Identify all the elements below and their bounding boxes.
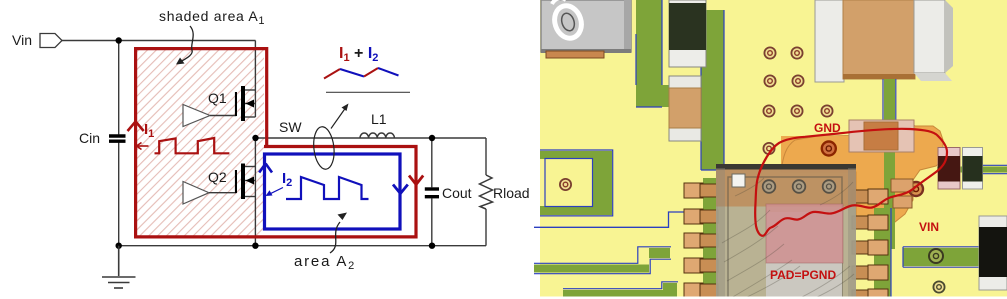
svg-text:I1 + I2: I1 + I2	[339, 45, 378, 64]
via in ring	[560, 179, 571, 190]
inductor L1	[360, 133, 394, 138]
trace green vertical (top, left of C black chip)	[636, 0, 662, 100]
wire Vin top rail	[61, 40, 256, 42]
Vin port tag	[40, 34, 62, 48]
trace green band C bottom-left	[563, 283, 677, 298]
QFN center pad (pink PGND pad)	[766, 204, 843, 263]
trace outline blue (vertical B)	[701, 10, 724, 170]
op-amp driver U1 (Q1 gate driver)	[183, 105, 210, 127]
ground	[102, 246, 136, 288]
capacitor Cin	[109, 136, 126, 141]
svg-text:shaded area A1: shaded area A1	[159, 8, 265, 27]
capacitor GND (on pour, horizontal)	[849, 120, 914, 152]
annotation leader for area A2	[330, 213, 347, 254]
copper pour strip above QFN	[781, 136, 856, 172]
capacitor component tan (middle)	[669, 76, 701, 141]
divider line under ripple waveform	[326, 91, 410, 93]
wire Cout bottom stem	[431, 198, 433, 245]
trace thin blue line mid-left	[534, 212, 684, 227]
current arrow I2 (up arrow on blue left edge)	[259, 164, 272, 173]
wire Q2 source to ground rail	[254, 197, 256, 246]
wire bottom rail	[119, 245, 486, 247]
trace green strip behind left pins	[703, 178, 718, 299]
svg-text:area A2: area A2	[294, 253, 356, 272]
trace green strip behind right pins	[874, 208, 891, 299]
wire SW node to L1 and Cout	[256, 137, 433, 139]
wire left rail upper (Vin junction to Cin)	[118, 41, 120, 135]
QFN pads right column	[852, 190, 870, 299]
trace green ring (bottom-left)	[540, 151, 612, 215]
svg-text:L1: L1	[371, 111, 387, 127]
node ground junction	[116, 243, 122, 249]
wire Cout top stem	[431, 138, 433, 187]
trace band C blue outline	[563, 282, 678, 289]
via large on pour (row4)	[822, 142, 836, 156]
svg-text:Cout: Cout	[442, 185, 472, 201]
waveform I1+I2 zigzag	[324, 68, 399, 79]
op-amp driver U2 (Q2 gate driver)	[183, 182, 209, 205]
node Cout top junction	[429, 135, 435, 141]
trace green elbow horizontal	[636, 85, 724, 107]
wire Cout to Rload top	[432, 137, 486, 139]
QFN body (translucent)	[716, 168, 856, 299]
shaded area A1 red border (loop)	[136, 49, 416, 237]
current arrow blue down (A2 right edge)	[393, 185, 408, 194]
annotation leader for shaded area A1	[176, 26, 193, 65]
wire Q1 drain vertical	[254, 41, 256, 91]
pads small on pour right	[891, 179, 913, 192]
trace green band bottom right	[903, 248, 1007, 266]
node Cout bottom junction	[429, 243, 435, 249]
svg-text:VIN: VIN	[919, 220, 939, 234]
trace ring inner blue outline	[545, 159, 593, 207]
QFN copper band under body top	[716, 170, 856, 207]
svg-text:Rload: Rload	[493, 185, 530, 201]
waveform I1 (dark red square pulses)	[155, 138, 230, 153]
trace outline blue (vertical A)	[636, 0, 662, 107]
svg-text:Cin: Cin	[79, 130, 100, 146]
QFN center gray column	[766, 212, 842, 299]
trace green band B lower-left	[534, 248, 670, 273]
QFN side strips	[716, 168, 725, 299]
QFN top dark edge	[716, 164, 856, 170]
svg-text:GND: GND	[814, 121, 841, 135]
svg-text:SW: SW	[279, 119, 302, 135]
chip component bottom-right black	[979, 216, 1007, 290]
node SW junction	[252, 135, 258, 141]
PCB solder mask background	[540, 0, 1007, 297]
annotation leader I2 arrow	[266, 188, 284, 197]
QFN pin-1 marker	[732, 174, 745, 187]
waveform I2 (blue ramps)	[286, 177, 369, 199]
inductor component top-left (gray)	[541, 0, 631, 53]
capacitor big (top right, tan with white ends)	[815, 0, 953, 82]
QFN vias inside top	[763, 180, 836, 193]
trace ring outer blue outline	[540, 150, 613, 216]
wire left rail lower (Cin to ground rail)	[118, 143, 120, 246]
svg-text:Q2: Q2	[208, 169, 227, 185]
annotation arrow SW to ripple	[331, 104, 349, 129]
copper pour GND/VIN region (orange)	[781, 122, 943, 226]
chip pair right: black chip	[963, 148, 983, 190]
shaded area A1 hatched fill	[137, 50, 264, 236]
via field rows (yellow area)	[763, 47, 832, 154]
QFN inner frame	[728, 177, 842, 299]
lead blue outlines	[883, 79, 896, 124]
via bottom-right on yellow	[933, 281, 944, 292]
svg-text:Q1: Q1	[208, 90, 227, 106]
via on bottom-right green band	[929, 249, 943, 263]
node Vin junction	[116, 37, 122, 43]
capacitor Cout	[425, 189, 439, 197]
trace band B blue outline	[534, 247, 671, 274]
wire Q1 gate lead	[210, 92, 236, 116]
annotation red loop (GND/VIN current path)	[755, 129, 947, 236]
trace green horizontal to right edge (under chips)	[937, 167, 1007, 173]
chip component R black (top middle)	[669, 0, 706, 67]
pad copper strip under inductor	[546, 51, 604, 58]
QFN pads left column	[684, 183, 703, 298]
current arrow red down (red loop right edge)	[409, 176, 423, 185]
transistor Q1	[236, 86, 255, 121]
chip pair right: dark red chip	[938, 148, 960, 190]
wire Rload bottom vertical	[485, 209, 487, 246]
resistor Rload	[480, 175, 493, 209]
wire Rload top vertical	[485, 138, 487, 175]
svg-text:PAD=PGND: PAD=PGND	[770, 268, 836, 282]
transistor Q2	[236, 164, 255, 200]
area A2 blue rectangle	[265, 154, 401, 229]
node SW highlight ellipse	[312, 126, 336, 170]
wire Q2 gate lead	[209, 170, 236, 193]
via on pour right (near VIN)	[909, 182, 923, 196]
current arrow I1 (up arrow on left red edge)	[128, 122, 144, 132]
svg-text:Vin: Vin	[12, 32, 32, 48]
trace green vertical B (behind chip column)	[701, 10, 724, 170]
QFN reflection streaks	[722, 178, 854, 298]
bottom white strip	[534, 297, 1007, 299]
wire Q2 drain vertical	[254, 138, 256, 167]
svg-text:I2: I2	[282, 170, 292, 189]
small red tick arrow at Cin	[137, 143, 149, 150]
trace green lead from big cap down through pour	[884, 79, 895, 249]
node Q2 source / ground rail junction	[252, 243, 258, 249]
